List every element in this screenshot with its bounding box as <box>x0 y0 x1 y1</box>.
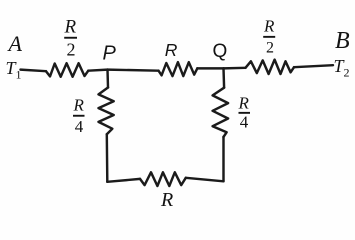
svg-text:T2: T2 <box>334 56 350 80</box>
wire resistor to node P <box>88 70 107 71</box>
svg-text:2: 2 <box>266 40 274 57</box>
wire right branch down to bottom corner <box>222 137 224 181</box>
svg-text:R: R <box>238 94 250 113</box>
svg-text:4: 4 <box>240 113 249 132</box>
label R/2 right: fraction bar <box>263 36 275 38</box>
resistor R/4 left vertical <box>99 88 114 135</box>
wire node Q to right resistor <box>224 67 246 70</box>
wire T1 lead <box>21 70 47 72</box>
svg-text:R: R <box>73 95 85 114</box>
resistor R middle <box>159 62 198 76</box>
svg-text:2: 2 <box>67 40 76 60</box>
label R/2 left: fraction bar <box>64 37 77 39</box>
wire middle resistor to node Q <box>197 67 223 69</box>
label R/4 right: fraction bar <box>239 112 251 114</box>
svg-text:A: A <box>7 31 23 56</box>
label R/4 left: fraction bar <box>73 115 85 117</box>
svg-text:P: P <box>103 42 117 64</box>
svg-text:4: 4 <box>75 117 84 136</box>
svg-text:R: R <box>165 40 178 60</box>
wire to T2 lead <box>294 65 333 67</box>
svg-text:T1: T1 <box>6 58 22 82</box>
wire bottom right segment <box>186 178 224 182</box>
svg-text:R: R <box>64 17 77 38</box>
wire node P down lead <box>106 70 109 88</box>
svg-text:B: B <box>335 28 350 54</box>
wire bottom left segment <box>107 179 140 182</box>
resistor R bottom <box>140 172 186 186</box>
resistor R/2 left <box>46 63 88 76</box>
resistor R/2 right <box>246 60 295 74</box>
svg-text:Q: Q <box>213 41 228 62</box>
wire node P to middle resistor <box>108 70 159 71</box>
resistor R/4 right vertical <box>213 88 229 137</box>
svg-text:R: R <box>263 16 275 35</box>
svg-text:R: R <box>160 189 173 211</box>
wire left branch down to bottom corner <box>106 134 109 182</box>
wire node Q down lead <box>222 68 225 87</box>
